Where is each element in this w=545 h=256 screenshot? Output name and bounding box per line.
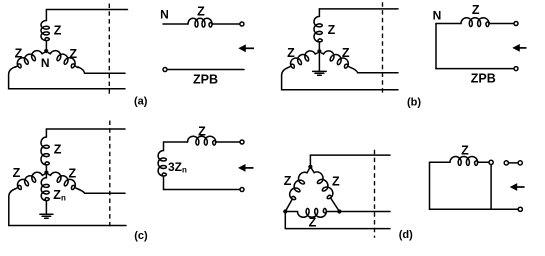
svg-text:N: N — [433, 8, 442, 22]
wire N lead equiv fig(a) — [163, 23, 188, 25]
arrow looking-in fig(d) — [510, 183, 525, 191]
wire stem top vertex fig(d) — [309, 155, 311, 167]
terminal circle top equiv fig(a) — [240, 22, 244, 26]
svg-text:Z: Z — [15, 47, 23, 61]
node right vertex dot fig(d) — [337, 209, 341, 213]
wire left side equiv fig(b) — [435, 24, 437, 69]
neutral impedance Zn coil fig(c) — [41, 173, 49, 204]
svg-text:Z: Z — [198, 124, 206, 138]
wire left drop and bottom bus fig(c) — [9, 189, 126, 226]
svg-text:Z: Z — [69, 47, 77, 61]
wire top bus fig(a) — [46, 9, 127, 11]
svg-text:Z: Z — [197, 5, 205, 19]
winding Z phase-B fig(b) — [285, 48, 318, 70]
dashed boundary fig(c) — [109, 121, 111, 227]
wire middle bus from right vertex fig(d) — [339, 211, 390, 213]
winding Z bottom side delta fig(d) — [285, 208, 339, 217]
wire top side equiv fig(d) — [430, 161, 451, 163]
wire bottom side equiv fig(b) — [436, 68, 514, 70]
ground at neutral fig(b) — [313, 51, 327, 75]
svg-text:Zn: Zn — [53, 188, 66, 203]
wire to top-right terminal equiv fig(d) — [478, 161, 489, 163]
terminal circle bottom equiv fig(a) — [163, 68, 167, 72]
svg-text:3Zn: 3Zn — [168, 160, 187, 175]
winding Z phase-C fig(a) — [47, 48, 81, 71]
winding Z phase-A fig(c) — [41, 129, 49, 173]
terminal circle bottom equiv fig(c) — [240, 188, 244, 192]
arrow looking-in fig(c) — [238, 164, 254, 172]
wire ZPB bus fig(a) — [167, 69, 244, 71]
terminal circle top-right equiv fig(d) — [489, 160, 493, 164]
svg-text:Z: Z — [54, 23, 62, 37]
inductor Z equiv fig(a) — [188, 18, 213, 27]
wire left side equiv fig(d) — [429, 162, 431, 209]
inductor Z equiv fig(c) — [188, 136, 217, 145]
wire left vertex drop and bottom bus fig(d) — [285, 212, 390, 229]
wire to terminal equiv fig(a) — [213, 23, 240, 25]
inductor Z equiv fig(b) — [461, 18, 490, 27]
svg-text:Z: Z — [284, 174, 292, 188]
node top vertex dot fig(d) — [308, 165, 312, 169]
terminal circle top equiv fig(c) — [240, 140, 244, 144]
terminal circle bottom equiv fig(d) — [518, 207, 522, 211]
terminal circle stub-left equiv fig(d) — [504, 161, 508, 165]
winding Z phase-B fig(a) — [12, 48, 45, 70]
wire right side equiv fig(d) — [490, 165, 492, 210]
winding Z phase-C fig(c) — [47, 169, 80, 191]
wire top bus fig(c) — [46, 128, 125, 130]
node junction dot fig(b) — [317, 49, 321, 53]
terminal circle top equiv fig(b) — [514, 22, 518, 26]
terminal circle stub-right equiv fig(d) — [518, 161, 522, 165]
dashed boundary fig(b) — [382, 2, 384, 93]
wire top side equiv fig(b) — [436, 23, 461, 25]
node left vertex dot fig(d) — [283, 209, 287, 213]
wire bottom side equiv fig(c) — [164, 189, 240, 191]
svg-text:N: N — [41, 56, 50, 70]
svg-text:N: N — [160, 7, 169, 21]
wire left drop and bottom bus fig(a) — [9, 67, 125, 89]
svg-text:Z: Z — [309, 215, 317, 229]
dashed boundary fig(a) — [108, 4, 110, 95]
wire middle bus fig(c) — [78, 189, 125, 193]
winding Z phase-C fig(b) — [320, 48, 353, 70]
svg-text:(c): (c) — [134, 230, 148, 242]
node N junction dot fig(a) — [44, 49, 48, 53]
inductor 3Zn equiv fig(c) — [158, 142, 166, 190]
svg-text:(d): (d) — [399, 229, 413, 241]
winding Z phase-A fig(a) — [41, 10, 49, 52]
svg-text:Z: Z — [287, 46, 295, 60]
wire top bus fig(d) — [310, 154, 390, 156]
wire to top terminal equiv fig(b) — [490, 23, 514, 25]
wire top bus fig(b) — [319, 8, 398, 10]
svg-text:Z: Z — [68, 167, 76, 181]
svg-text:Z: Z — [342, 46, 350, 60]
wire middle bus fig(b) — [351, 68, 398, 73]
winding Z right side delta fig(d) — [308, 164, 344, 213]
winding Z phase-B fig(c) — [12, 169, 45, 191]
svg-text:ZPB: ZPB — [193, 72, 218, 86]
wire middle bus fig(a) — [78, 67, 125, 73]
svg-text:Z: Z — [472, 3, 480, 17]
svg-text:Z: Z — [328, 23, 336, 37]
wire top side equiv fig(c) — [164, 141, 188, 143]
arrow looking-in fig(a) — [238, 44, 254, 52]
svg-text:Z: Z — [332, 175, 340, 189]
svg-text:Z: Z — [54, 142, 62, 156]
svg-text:Z: Z — [13, 166, 21, 180]
wire left drop and bottom bus fig(b) — [282, 68, 398, 90]
arrow looking-in fig(b) — [512, 44, 526, 52]
dashed boundary fig(d) — [374, 150, 376, 238]
winding Z phase-A fig(b) — [314, 9, 322, 51]
svg-text:ZPB: ZPB — [471, 72, 496, 86]
wire open stub equiv fig(d) — [509, 162, 519, 164]
svg-text:(b): (b) — [407, 96, 421, 108]
svg-text:(a): (a) — [134, 96, 148, 108]
inductor Z equiv fig(d) — [450, 157, 478, 166]
svg-text:Z: Z — [461, 144, 469, 158]
node junction dot fig(c) — [44, 171, 48, 175]
terminal circle bottom equiv fig(b) — [514, 67, 518, 71]
winding Z left side delta fig(d) — [281, 164, 313, 213]
ground below Zn fig(c) — [40, 204, 53, 218]
wire to top terminal equiv fig(c) — [216, 141, 239, 143]
wire bottom side equiv fig(d) — [430, 208, 519, 210]
